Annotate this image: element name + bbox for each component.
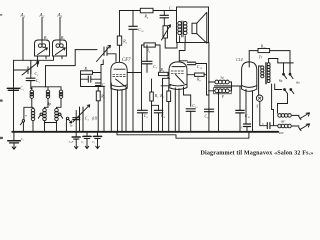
- choke F core: [214, 85, 231, 87]
- capacitor C10: [129, 11, 138, 132]
- resistor tone control with arrow: [162, 25, 178, 48]
- choke F winding 1: [215, 80, 229, 84]
- wire tube1 pins to bus: [111, 83, 126, 132]
- capacitor C9: [138, 110, 148, 113]
- wire R9 to bus: [168, 102, 170, 132]
- wire rectifier top lead: [249, 51, 258, 62]
- svg-text:R₈: R₈: [196, 78, 201, 82]
- coil L2 column lower: [43, 108, 47, 120]
- wire choke right link: [230, 82, 232, 91]
- wire C1 vertical line: [13, 60, 15, 132]
- choke F winding 2: [214, 88, 232, 94]
- coil L3 column upper: [59, 90, 63, 98]
- svg-text:R₉: R₉: [159, 94, 164, 98]
- capacitor C3 padding trimmer with arrow: [73, 105, 90, 132]
- capacitor C12: [186, 109, 195, 112]
- wire rectifier right lead: [252, 92, 254, 132]
- switch selector lower contacts: [278, 89, 294, 114]
- capacitor ground G2: [83, 132, 91, 149]
- speaker box frame: [177, 7, 209, 43]
- svg-text:CF7: CF7: [122, 58, 131, 63]
- coil L2 column upper: [46, 90, 50, 98]
- transformer T-out secondary winding: [183, 22, 187, 35]
- resistor R8: [187, 73, 206, 76]
- svg-text:Sp: Sp: [221, 76, 225, 80]
- wire mains line1 out: [292, 114, 299, 116]
- svg-text:R₅: R₅: [122, 40, 127, 44]
- svg-text:C₆: C₆: [102, 83, 107, 87]
- capacitor C1 series: [7, 88, 19, 90]
- svg-text:C₅: C₅: [169, 7, 174, 11]
- transformer Tr core: [265, 63, 266, 85]
- switch S2 band: [38, 113, 42, 118]
- svg-text:400: 400: [279, 131, 284, 135]
- svg-text:R₄: R₄: [144, 14, 149, 18]
- wire L3 bottom leads: [45, 121, 57, 132]
- svg-text:R₁₀: R₁₀: [260, 44, 267, 48]
- svg-text:To: To: [70, 124, 73, 128]
- wire Tr left lead to lamp: [259, 66, 263, 95]
- svg-text:C₂: C₂: [35, 72, 40, 76]
- svg-text:w: w: [25, 114, 27, 118]
- wire lamp to mains line2: [260, 101, 267, 125]
- svg-text:F: F: [221, 95, 225, 99]
- wire tube2 pin to C12: [184, 87, 191, 106]
- wire B+ drop from speaker box: [208, 43, 210, 132]
- svg-text:R₇: R₇: [154, 94, 159, 98]
- wire grid lead: [75, 49, 97, 51]
- svg-text:Diagrammet til Magnavox «Salon: Diagrammet til Magnavox «Salon 32 Fs.»: [201, 151, 314, 157]
- wire A3 lead: [59, 18, 61, 41]
- wire C1 tap to C2: [14, 69, 28, 71]
- tube V2 output: [169, 62, 187, 90]
- wire top HT rail: [120, 10, 177, 12]
- switch S4 band: [66, 117, 71, 123]
- speaker LS: [192, 12, 207, 43]
- wire R10 right to selector rail: [270, 51, 290, 63]
- wire C2 through line: [30, 60, 32, 78]
- wire anode node down to C9: [141, 73, 143, 111]
- wire transformer leads down: [180, 36, 186, 43]
- transformer Tr secondary winding: [267, 63, 270, 83]
- capacitor C16 mains: [267, 123, 270, 129]
- coil L3 column lower: [55, 108, 59, 120]
- wire trimmer line x76: [75, 111, 77, 132]
- wire Tr secondary taps down: [272, 84, 282, 126]
- wire osc loop sides: [81, 65, 105, 87]
- capacitor ground G3: [93, 132, 101, 149]
- svg-text:C₁₀: C₁₀: [138, 28, 144, 32]
- wire coil tops tie: [32, 87, 61, 90]
- wire can1 left stub down: [37, 56, 39, 67]
- wire C12 to bus: [190, 111, 192, 132]
- capacitor C2 variable trimmer: [22, 62, 39, 75]
- resistor R7: [150, 79, 159, 132]
- wire R2 to bus: [97, 101, 99, 132]
- coil B2 shielded antenna coil can: [53, 40, 67, 59]
- wire L1 middle link: [32, 98, 33, 108]
- capacitor C osc: [81, 76, 102, 82]
- resistor R6 grid: [159, 72, 170, 75]
- capacitor C3 fixed: [26, 78, 35, 80]
- svg-text:C₄: C₄: [161, 114, 166, 118]
- scan artifact left edge 1: [0, 14, 2, 15]
- wire gang tail down: [101, 60, 103, 65]
- capacitor small in line: [73, 118, 80, 120]
- svg-text:Rg: Rg: [278, 79, 283, 83]
- wire choke mid drop: [218, 92, 220, 132]
- capacitor C8: [154, 110, 163, 113]
- wire chassis bus: [12, 131, 278, 133]
- svg-text:C₉: C₉: [144, 114, 149, 118]
- svg-text:Bр: Bр: [47, 102, 51, 106]
- wire Tr primary top to rail: [269, 59, 278, 63]
- wire selector rail: [278, 62, 294, 64]
- wire mains line2 out: [292, 125, 299, 127]
- capacitor C14 filter: [236, 110, 244, 113]
- wire C11 to bus: [208, 112, 210, 114]
- svg-text:C₃: C₃: [36, 79, 41, 83]
- capacitor C6: [96, 83, 102, 91]
- wire C9 to bus: [141, 113, 143, 132]
- svg-text:C₇: C₇: [153, 65, 158, 69]
- svg-text:R₂: R₂: [100, 95, 105, 99]
- svg-text:Ro: Ro: [295, 81, 300, 85]
- capacitor ground G4: [72, 132, 80, 149]
- resistor R10 HT: [258, 49, 270, 53]
- resistor R1 oscillator: [81, 71, 102, 75]
- resistor R2: [96, 91, 100, 101]
- wire input bus y60: [14, 56, 54, 60]
- resistor R3 anode: [117, 36, 121, 45]
- capacitor C5: [160, 11, 169, 26]
- switch S1 band: [20, 107, 32, 132]
- wire L2 middle link: [45, 98, 49, 108]
- svg-text:C₄: C₄: [81, 140, 84, 144]
- capacitor C13: [179, 61, 206, 65]
- svg-text:R₅: R₅: [146, 49, 151, 53]
- wire C14 to bus: [239, 113, 241, 132]
- svg-text:Tr: Tr: [259, 56, 263, 60]
- svg-text:C₁: C₁: [20, 87, 25, 91]
- coil L1 column lower: [31, 108, 35, 120]
- wire L1 bottom leads: [32, 121, 34, 132]
- wire tube2 grid line to bus: [162, 78, 164, 132]
- svg-text:C14: C14: [236, 57, 243, 62]
- wire gang to tube1 grid: [107, 54, 116, 62]
- choke HF1 mains filter: [278, 114, 292, 118]
- wire mains line2: [270, 125, 278, 127]
- wire R3 to tube1: [119, 45, 121, 62]
- wire oscillator link: [46, 50, 76, 87]
- plug arrow mains 1: [299, 113, 310, 120]
- wire C8 to bus: [158, 113, 160, 132]
- wire cathode bracket: [161, 86, 171, 91]
- wire node line x206: [207, 64, 210, 96]
- svg-text:C₁₃: C₁₃: [197, 65, 203, 69]
- choke HF2 mains filter: [278, 124, 292, 128]
- capacitor C7: [142, 45, 152, 72]
- svg-text:B₂: B₂: [61, 36, 65, 40]
- wire anode node up: [142, 45, 145, 73]
- wire tube2 grid entry: [163, 77, 170, 78]
- capacitor C15 across mains elco: [244, 124, 251, 127]
- resistor R9 cathode: [167, 91, 171, 102]
- wire choke to rectifier and C14: [232, 86, 247, 110]
- wire L3 middle link: [57, 98, 62, 108]
- svg-text:C₅: C₅: [92, 140, 95, 144]
- transformer T-out core: [182, 21, 183, 37]
- svg-text:B₁: B₁: [44, 36, 48, 40]
- coil B1 shielded antenna coil can: [35, 40, 50, 59]
- transformer T-out primary winding: [178, 22, 182, 35]
- svg-text:R₁: R₁: [84, 67, 89, 71]
- lamp S dial: [256, 95, 262, 101]
- resistor R4 in rail: [140, 8, 153, 13]
- svg-text:HF: HF: [280, 119, 285, 123]
- svg-text:β11: β11: [91, 117, 98, 121]
- capacitor C11: [205, 109, 214, 112]
- capacitor C gang tuning variable: [97, 45, 111, 61]
- wire return sub-line: [117, 132, 249, 138]
- tube V1 CF7: [111, 62, 127, 90]
- svg-text:C: C: [262, 122, 265, 126]
- wire choke left ties: [209, 82, 215, 91]
- wire A2 lead: [41, 18, 43, 41]
- resistor R5: [144, 43, 155, 47]
- wire to tube2 anode top: [179, 43, 185, 63]
- wire osc drop to bus: [103, 87, 105, 132]
- svg-text:C₁₂: C₁₂: [192, 104, 198, 108]
- scan artifact left edge 3: [0, 137, 3, 139]
- switch selector upper contacts: [283, 63, 293, 79]
- capacitor C4 ground: [8, 132, 20, 150]
- svg-text:S: S: [256, 105, 258, 109]
- wire C3 down to coil column 1: [31, 81, 32, 89]
- wire tube1 anode out: [127, 72, 141, 74]
- svg-text:C₃: C₃: [85, 117, 90, 121]
- scan artifact left edge 2: [0, 100, 3, 102]
- tube V3 rectifier: [242, 62, 257, 91]
- svg-text:C₁₄: C₁₄: [205, 115, 211, 119]
- wire tube2 pins to bus: [175, 88, 179, 132]
- wire R5 right down: [155, 45, 160, 72]
- coil L1 column upper: [30, 90, 34, 98]
- svg-text:C.F: C.F: [69, 140, 74, 144]
- svg-text:R₆: R₆: [160, 68, 165, 72]
- wire A1 lead: [22, 18, 24, 61]
- wire rail down to R3: [119, 11, 121, 37]
- plug arrow mains 2: [299, 124, 310, 131]
- wire C15 stub: [246, 91, 247, 131]
- switch S3 band: [59, 113, 67, 132]
- wire L2 bottom leads: [44, 121, 46, 123]
- svg-text:C₄: C₄: [21, 137, 24, 141]
- transformer Tr primary winding: [261, 66, 264, 78]
